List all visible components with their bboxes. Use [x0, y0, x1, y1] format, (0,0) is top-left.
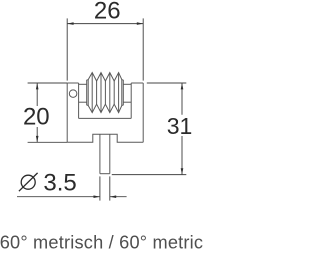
svg-text:26: 26 [94, 0, 121, 25]
svg-text:60° metrisch / 60° metric: 60° metrisch / 60° metric [0, 233, 203, 253]
svg-text:31: 31 [167, 113, 193, 139]
svg-text:3.5: 3.5 [43, 170, 76, 197]
svg-text:20: 20 [23, 104, 50, 131]
